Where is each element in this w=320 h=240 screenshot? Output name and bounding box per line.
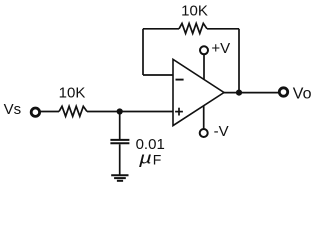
svg-text:-V: -V: [214, 123, 229, 140]
wire: feedback left vertical: [142, 29, 144, 75]
wire: capacitor to ground: [119, 144, 121, 175]
resistor 10K (input): [59, 106, 87, 116]
svg-text:10K: 10K: [181, 3, 208, 20]
capacitor 0.01uF: [110, 139, 129, 141]
wire: op-amp output to Vo terminal: [224, 92, 279, 94]
node junction (output / feedback): [236, 90, 242, 96]
svg-text:µ: µ: [138, 149, 152, 168]
svg-text:10K: 10K: [59, 84, 86, 101]
svg-text:+V: +V: [211, 40, 230, 57]
ground: [111, 174, 128, 176]
wire: node down to capacitor: [119, 112, 121, 140]
op-amp inverting input marker (-): [176, 79, 184, 81]
op-amp non-inverting input marker (+): [175, 111, 183, 113]
terminal Vs: [31, 108, 39, 116]
svg-text:Vo: Vo: [293, 85, 312, 102]
node junction (resistor / capacitor / + input): [117, 108, 123, 114]
wire: feedback top left segment: [143, 28, 179, 30]
power terminal +V: [200, 46, 208, 54]
op-amp U1: [173, 59, 224, 125]
svg-text:F: F: [153, 152, 162, 168]
wire: feedback top right segment: [207, 28, 239, 30]
svg-text:Vs: Vs: [4, 101, 22, 118]
terminal Vo: [279, 88, 287, 96]
wire: feedback right vertical down to output: [238, 29, 240, 93]
wire: inverting input to feedback branch: [143, 74, 173, 76]
power terminal -V: [200, 129, 208, 137]
resistor 10K (feedback): [179, 23, 207, 33]
wire: Vs terminal to input resistor: [40, 111, 59, 113]
wire: -V terminal to op-amp bottom: [203, 106, 205, 129]
wire: +V terminal to op-amp top: [203, 54, 205, 79]
wire: input resistor to op-amp + input: [87, 111, 173, 113]
